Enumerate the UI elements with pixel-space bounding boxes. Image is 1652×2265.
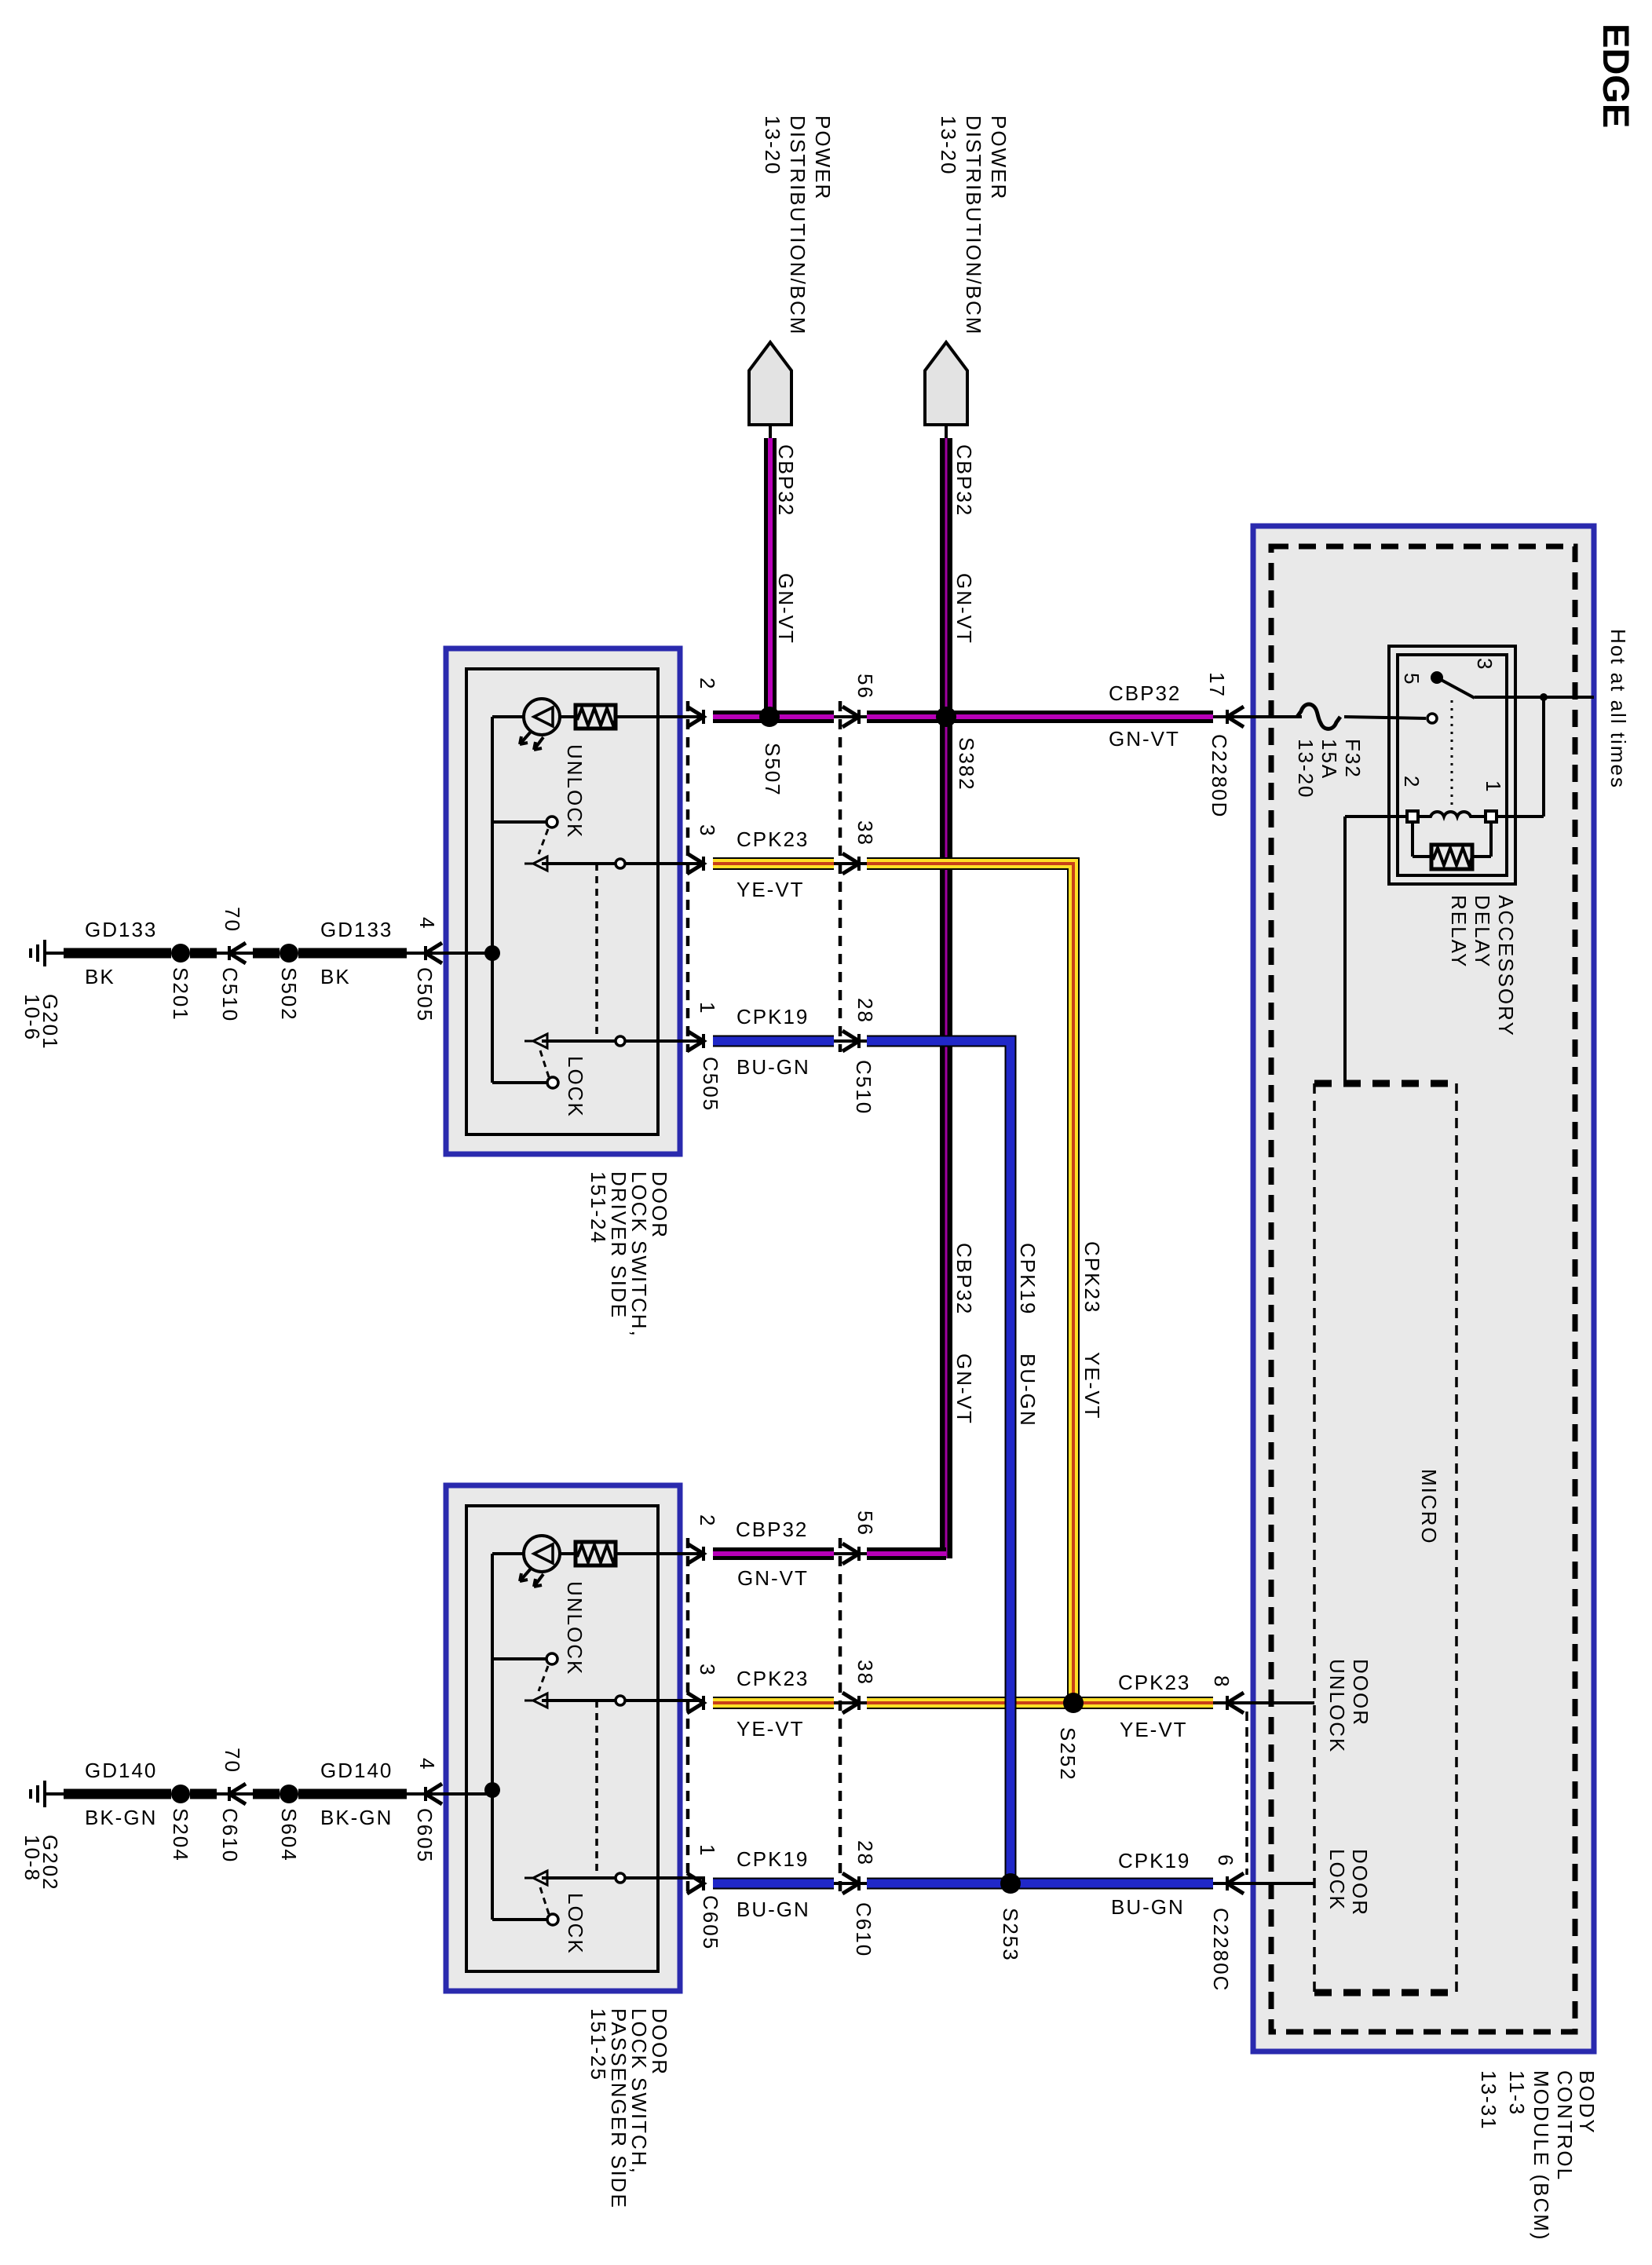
- svg-text:4: 4: [415, 1758, 439, 1770]
- thin link to switch (driver): [407, 952, 492, 955]
- passenger switch LOCK contact arrow (pin 1 row): [533, 1871, 547, 1885]
- splice S204: [171, 1785, 190, 1803]
- relay contact circle (pin 5): [1427, 714, 1437, 723]
- splice S502: [280, 944, 298, 963]
- svg-text:S201: S201: [169, 967, 192, 1021]
- svg-text:151-25: 151-25: [587, 2008, 610, 2081]
- svg-text:C610: C610: [218, 1808, 242, 1863]
- svg-text:RELAY: RELAY: [1447, 895, 1471, 968]
- driver switch ground junction dot: [484, 945, 500, 961]
- driver switch UNLOCK contact branch: [492, 820, 546, 824]
- svg-text:S507: S507: [761, 743, 784, 797]
- MICRO dashed box: [1314, 1083, 1456, 1993]
- splice S382: [936, 707, 956, 727]
- svg-text:4: 4: [415, 917, 439, 930]
- svg-text:1: 1: [696, 1844, 719, 1857]
- accessory delay relay outer box: [1389, 646, 1515, 884]
- wire coil pin1 to resistor right: [1489, 822, 1493, 857]
- svg-text:56: 56: [853, 674, 877, 700]
- label DOOR UNLOCK: [1325, 1659, 1372, 1753]
- thin link across C610 (passenger pin1 row): [834, 1882, 867, 1885]
- thin link across C610 (passenger pin2 row): [834, 1552, 867, 1555]
- svg-text:S253: S253: [999, 1908, 1022, 1962]
- passenger switch UNLOCK contact branch: [492, 1657, 546, 1660]
- svg-text:ACCESSORY: ACCESSORY: [1494, 895, 1518, 1037]
- passenger switch small terminal circle pin3 row: [616, 1696, 625, 1705]
- lead from connector (feed2): [945, 425, 948, 440]
- svg-text:17: 17: [1205, 672, 1229, 698]
- svg-text:CPK19: CPK19: [736, 1005, 809, 1028]
- svg-text:28: 28: [853, 998, 877, 1024]
- junction hot line to coil branch: [1540, 693, 1548, 701]
- connector dashed line C605 (passenger): [686, 1538, 690, 1894]
- svg-text:DISTRIBUTION/BCM: DISTRIBUTION/BCM: [962, 115, 985, 335]
- wire CPK23 YE-VT driver row to yellow bus corner: [867, 864, 1073, 1703]
- driver switch wire motor to resistor: [559, 715, 576, 718]
- thin link at inline connector (passenger): [217, 1792, 253, 1796]
- passenger switch LOCK dashed blade: [540, 1887, 549, 1914]
- svg-text:C510: C510: [852, 1060, 875, 1115]
- connector arrow pin8 at BCM: [1227, 1693, 1244, 1713]
- svg-text:LOCK: LOCK: [564, 1893, 587, 1955]
- accessory delay relay inner box: [1398, 655, 1507, 875]
- ground symbol G201 10-6 (driver): [31, 940, 45, 966]
- wire CPK19 BU-GN passenger pin1 row segment: [713, 1878, 834, 1890]
- thin wire fuse to relay contact: [1344, 717, 1426, 718]
- passenger switch box name label: [587, 2008, 671, 2209]
- connector arrow 4 (driver): [426, 943, 442, 963]
- passenger switch pin 3 wire inside switch: [542, 1699, 616, 1702]
- connector dashed line C505 (driver): [686, 701, 690, 1052]
- thin link at inline connector (driver): [217, 952, 253, 955]
- svg-text:BODY: BODY: [1575, 2070, 1599, 2135]
- svg-text:UNLOCK: UNLOCK: [1325, 1659, 1349, 1753]
- driver switch pin 3 wire inside switch: [542, 862, 616, 865]
- off-page connector POWER DISTRIBUTION/BCM 13-20 (feed2) label: [937, 115, 1011, 335]
- svg-text:CPK23: CPK23: [1118, 1671, 1190, 1694]
- svg-text:10-6: 10-6: [20, 994, 44, 1041]
- svg-text:MODULE (BCM): MODULE (BCM): [1530, 2070, 1553, 2241]
- wire CPK19 BU-GN passenger row to S253: [867, 1878, 1213, 1890]
- wire GD140 BK-GN segment 1 (passenger): [64, 1789, 171, 1799]
- svg-text:DOOR: DOOR: [1348, 1849, 1372, 1916]
- svg-text:56: 56: [853, 1511, 877, 1536]
- svg-text:BK-GN: BK-GN: [85, 1806, 157, 1829]
- relay coil: [1418, 812, 1486, 816]
- wire CBP32 GN-VT passenger row to magenta bus corner: [867, 1547, 946, 1560]
- driver switch LOCK contact circle: [547, 1077, 558, 1088]
- wire CPK19 blue bus over yellow row at crossing: [1005, 1680, 1017, 1751]
- svg-text:CBP32: CBP32: [952, 1243, 976, 1315]
- wire relay pin 2 to MICRO: [1345, 815, 1407, 818]
- svg-text:YE-VT: YE-VT: [1080, 1352, 1104, 1420]
- wire GD133 BK segment 2 (driver): [298, 948, 407, 959]
- off-page connector arrow (feed2): [925, 342, 967, 425]
- splice S252: [1063, 1693, 1084, 1713]
- splice S201: [171, 944, 190, 963]
- connector arrow 56 (passenger): [842, 1543, 859, 1564]
- svg-text:POWER: POWER: [987, 115, 1011, 200]
- wire GD140 BK-GN segment 2 (passenger): [298, 1789, 407, 1799]
- connector arrow 28 (driver): [842, 1031, 859, 1051]
- svg-text:1: 1: [1482, 780, 1505, 793]
- lead ground to wire (driver): [45, 952, 64, 955]
- connector arrow 56 (driver): [842, 707, 859, 727]
- svg-text:CBP32: CBP32: [952, 444, 976, 517]
- svg-text:28: 28: [853, 1840, 877, 1866]
- wire CBP32 GN-VT driver row to BCM: [867, 711, 1213, 723]
- lead from connector (feed1): [769, 425, 772, 440]
- svg-text:C605: C605: [413, 1808, 437, 1863]
- connector arrow pin2 (passenger): [687, 1543, 704, 1564]
- svg-text:15A: 15A: [1318, 739, 1341, 780]
- wire CBP32 GN-VT passenger pin2 row segment: [713, 1547, 834, 1560]
- svg-text:Hot at all times: Hot at all times: [1606, 629, 1630, 789]
- wire CPK19 BU-GN driver pin1 row segment: [713, 1036, 834, 1047]
- svg-text:3: 3: [696, 824, 719, 837]
- thin link across C510 (driver pin2 row): [834, 715, 867, 718]
- svg-text:LOCK: LOCK: [564, 1056, 587, 1118]
- svg-text:CPK23: CPK23: [736, 827, 809, 851]
- wire coil pin2 to resistor left: [1411, 822, 1414, 857]
- passenger switch motor symbol: [520, 1536, 560, 1587]
- svg-text:UNLOCK: UNLOCK: [563, 744, 587, 838]
- wire Hot at all times into relay: [1475, 696, 1594, 699]
- svg-text:S604: S604: [277, 1808, 301, 1862]
- svg-text:GN-VT: GN-VT: [774, 573, 798, 645]
- wire CPK23 YE-VT passenger pin3 row segment: [713, 1697, 834, 1709]
- svg-text:BK: BK: [85, 965, 115, 988]
- svg-text:70: 70: [221, 907, 244, 933]
- connector arrow 4 (passenger): [426, 1784, 442, 1804]
- wire CPK23 YE-VT passenger row to S252: [867, 1697, 1213, 1709]
- svg-text:DISTRIBUTION/BCM: DISTRIBUTION/BCM: [786, 115, 810, 335]
- thin wire from arrow 17 to fuse: [1213, 715, 1302, 718]
- connector arrow 70 (passenger): [229, 1784, 246, 1804]
- thin link across C610 (passenger pin3 row): [834, 1701, 867, 1704]
- svg-text:13-31: 13-31: [1477, 2070, 1500, 2131]
- svg-text:GD140: GD140: [320, 1759, 393, 1782]
- svg-text:S204: S204: [169, 1808, 192, 1862]
- svg-text:EDGE: EDGE: [1595, 24, 1637, 128]
- svg-text:C2280D: C2280D: [1208, 734, 1231, 818]
- svg-text:C610: C610: [852, 1902, 875, 1957]
- svg-text:YE-VT: YE-VT: [1120, 1718, 1188, 1741]
- svg-text:GD133: GD133: [85, 918, 157, 941]
- svg-text:BU-GN: BU-GN: [1016, 1354, 1040, 1427]
- svg-text:6: 6: [1214, 1854, 1237, 1867]
- label BODY CONTROL MODULE (BCM) 11-3 13-31: [1477, 2070, 1599, 2241]
- svg-text:CBP32: CBP32: [736, 1518, 808, 1541]
- driver switch resistor (motor feed): [576, 705, 617, 729]
- svg-text:CBP32: CBP32: [1109, 681, 1181, 705]
- svg-text:13-20: 13-20: [937, 115, 960, 176]
- svg-text:BU-GN: BU-GN: [1111, 1895, 1185, 1919]
- svg-text:C2280C: C2280C: [1209, 1908, 1233, 1992]
- thin wire pin6 to MICRO: [1213, 1882, 1314, 1885]
- wire CPK23 YE-VT driver pin3 row segment: [713, 857, 834, 870]
- relay suppression resistor: [1431, 845, 1473, 869]
- wire CBP32 GN-VT feed2 vertical through S382 down to passenger row: [940, 438, 952, 1558]
- thin link across C510 (driver pin3 row): [834, 862, 867, 865]
- svg-text:BK-GN: BK-GN: [320, 1806, 393, 1829]
- passenger switch dashed link between switch poles: [595, 1701, 598, 1878]
- svg-text:GN-VT: GN-VT: [952, 1354, 976, 1425]
- connector dashed line C610 (passenger): [839, 1538, 842, 1894]
- driver switch motor symbol: [520, 699, 560, 750]
- driver switch UNLOCK contact circle: [546, 816, 557, 827]
- svg-text:BK: BK: [320, 965, 351, 988]
- label DOOR LOCK: [1325, 1849, 1372, 1916]
- svg-text:2: 2: [1400, 776, 1424, 788]
- svg-text:GD133: GD133: [320, 918, 393, 941]
- passenger switch wire motor to left rail: [492, 1552, 524, 1555]
- connector arrow pin3 (driver): [687, 853, 704, 874]
- svg-text:3: 3: [696, 1664, 719, 1676]
- off-page connector POWER DISTRIBUTION/BCM 13-20 (feed1) label: [761, 115, 835, 335]
- body control module box: [1253, 526, 1594, 2051]
- driver switch LOCK contact to rail: [492, 1081, 547, 1084]
- off-page connector arrow (feed1): [749, 342, 791, 425]
- thin link across C510 (driver pin1 row): [834, 1039, 867, 1043]
- passenger switch door lock switch box: [446, 1485, 680, 1991]
- svg-text:CPK23: CPK23: [1080, 1241, 1104, 1313]
- svg-text:CBP32: CBP32: [774, 444, 798, 517]
- svg-text:UNLOCK: UNLOCK: [563, 1581, 587, 1675]
- relay switch blade: [1437, 678, 1475, 698]
- connector arrow pin1 (passenger): [687, 1873, 704, 1894]
- connector arrow pin1 (driver): [687, 1031, 704, 1051]
- svg-text:S382: S382: [955, 737, 978, 791]
- passenger switch small terminal circle pin1 row: [616, 1873, 625, 1883]
- svg-text:CPK19: CPK19: [1016, 1243, 1040, 1315]
- svg-text:38: 38: [853, 820, 877, 846]
- driver switch LOCK dashed blade: [540, 1050, 549, 1077]
- svg-text:POWER: POWER: [811, 115, 835, 200]
- svg-text:70: 70: [221, 1748, 244, 1774]
- driver switch wire resistor to pin 2: [616, 715, 702, 718]
- driver switch box name label: [587, 1171, 671, 1338]
- passenger switch LOCK contact to rail: [492, 1918, 547, 1921]
- connector arrow pin3 (passenger): [687, 1693, 704, 1713]
- driver switch UNLOCK dashed blade: [539, 829, 548, 854]
- svg-text:CPK19: CPK19: [736, 1847, 809, 1871]
- svg-text:CPK23: CPK23: [736, 1667, 809, 1690]
- svg-text:F32: F32: [1341, 739, 1365, 779]
- connector dashed line C510 (driver): [839, 701, 842, 1052]
- svg-text:C505: C505: [413, 967, 437, 1022]
- thin wire pin8 to MICRO: [1213, 1701, 1314, 1704]
- svg-text:S252: S252: [1056, 1727, 1080, 1781]
- connector arrow 38 (driver): [842, 853, 859, 874]
- connector dashed line C2280C between pin8 and pin6: [1245, 1712, 1248, 1875]
- svg-text:38: 38: [853, 1660, 877, 1686]
- driver switch switch inner border: [466, 669, 658, 1134]
- svg-text:1: 1: [696, 1002, 719, 1014]
- svg-text:10-8: 10-8: [20, 1835, 44, 1882]
- driver switch common contact arrow (pin 3 row): [533, 857, 547, 871]
- wire stub before S604: [253, 1789, 280, 1799]
- svg-text:5: 5: [1400, 673, 1424, 685]
- label ACCESSORY DELAY RELAY: [1447, 895, 1518, 1037]
- relay coil terminal squares: [1407, 811, 1418, 822]
- passenger switch switch inner border: [466, 1506, 658, 1971]
- svg-text:YE-VT: YE-VT: [736, 1717, 805, 1741]
- svg-text:13-20: 13-20: [1294, 739, 1318, 799]
- svg-text:GN-VT: GN-VT: [737, 1566, 809, 1590]
- label F32 15A 13-20: [1294, 739, 1365, 799]
- svg-text:GN-VT: GN-VT: [1109, 727, 1180, 751]
- connector arrow 28 (passenger): [842, 1873, 859, 1894]
- passenger switch resistor (motor feed): [576, 1542, 617, 1565]
- svg-text:S502: S502: [277, 967, 301, 1021]
- passenger switch wire resistor to pin 2: [616, 1552, 702, 1555]
- wire stub after S204: [190, 1789, 217, 1799]
- connector arrow 38 (passenger): [842, 1693, 859, 1713]
- passenger switch common contact arrow (pin 3 row): [533, 1693, 547, 1708]
- wire branch to relay coil pin 1: [1542, 697, 1545, 816]
- wire stub before S502: [253, 948, 280, 959]
- driver switch door lock switch box: [446, 648, 680, 1154]
- driver switch pin 1 wire inside switch: [542, 1039, 616, 1043]
- lead ground to wire (passenger): [45, 1792, 64, 1796]
- fuse F32 15A: [1297, 704, 1340, 729]
- svg-text:MICRO: MICRO: [1417, 1469, 1441, 1545]
- BCM internal dashed border: [1271, 546, 1575, 2032]
- driver switch wire motor to left rail: [492, 715, 524, 718]
- driver switch LOCK contact arrow (pin 1 row): [533, 1034, 547, 1048]
- wire CBP32 GN-VT feed1 vertical to S507: [764, 438, 777, 717]
- svg-text:C605: C605: [699, 1895, 722, 1950]
- passenger switch UNLOCK contact circle: [546, 1653, 557, 1664]
- svg-text:YE-VT: YE-VT: [736, 878, 805, 901]
- svg-text:2: 2: [696, 678, 719, 690]
- passenger switch left rail: [491, 1554, 494, 1920]
- splice S253: [1000, 1873, 1021, 1894]
- driver switch left rail: [491, 717, 494, 1083]
- svg-text:GN-VT: GN-VT: [952, 573, 976, 645]
- passenger switch UNLOCK dashed blade: [539, 1666, 548, 1691]
- connector arrow pin17 at BCM: [1227, 707, 1244, 727]
- thin link to switch (passenger): [407, 1792, 492, 1796]
- splice S507: [759, 707, 780, 727]
- passenger switch ground junction dot: [484, 1782, 500, 1798]
- connector arrow pin6 at BCM: [1227, 1873, 1244, 1894]
- svg-text:LOCK: LOCK: [1325, 1849, 1349, 1911]
- svg-text:C510: C510: [218, 967, 242, 1022]
- driver switch small terminal circle pin1 row: [616, 1036, 625, 1046]
- wire GD133 BK segment 1 (driver): [64, 948, 171, 959]
- svg-text:BU-GN: BU-GN: [736, 1898, 810, 1921]
- passenger switch LOCK contact circle: [547, 1914, 558, 1925]
- svg-text:C505: C505: [699, 1057, 722, 1112]
- passenger switch pin 1 wire inside switch: [542, 1876, 616, 1880]
- svg-text:DOOR: DOOR: [1349, 1659, 1372, 1726]
- svg-text:151-24: 151-24: [587, 1171, 610, 1244]
- svg-text:GD140: GD140: [85, 1759, 157, 1782]
- connector arrow pin2 (driver): [687, 707, 704, 727]
- splice S604: [280, 1785, 298, 1803]
- svg-text:2: 2: [696, 1514, 719, 1527]
- svg-text:DELAY: DELAY: [1471, 895, 1494, 968]
- relay actuator dotted line: [1451, 700, 1453, 809]
- svg-text:CONTROL: CONTROL: [1553, 2070, 1577, 2181]
- svg-text:8: 8: [1210, 1675, 1234, 1688]
- connector arrow 70 (driver): [229, 943, 246, 963]
- svg-text:11-3: 11-3: [1505, 2070, 1529, 2116]
- svg-text:13-20: 13-20: [761, 115, 784, 176]
- wire CBP32 GN-VT driver pin2 row S507 segment: [713, 711, 834, 723]
- svg-text:3: 3: [1473, 658, 1497, 670]
- passenger switch wire motor to resistor: [559, 1552, 576, 1555]
- wire stub after S201: [190, 948, 217, 959]
- svg-text:CPK19: CPK19: [1118, 1849, 1190, 1872]
- driver switch small terminal circle pin3 row: [616, 859, 625, 868]
- wire CPK19 BU-GN driver row to blue bus corner: [867, 1041, 1011, 1883]
- ground symbol G202 10-8 (passenger): [31, 1781, 45, 1807]
- driver switch dashed link between switch poles: [595, 864, 598, 1041]
- svg-text:BU-GN: BU-GN: [736, 1055, 810, 1079]
